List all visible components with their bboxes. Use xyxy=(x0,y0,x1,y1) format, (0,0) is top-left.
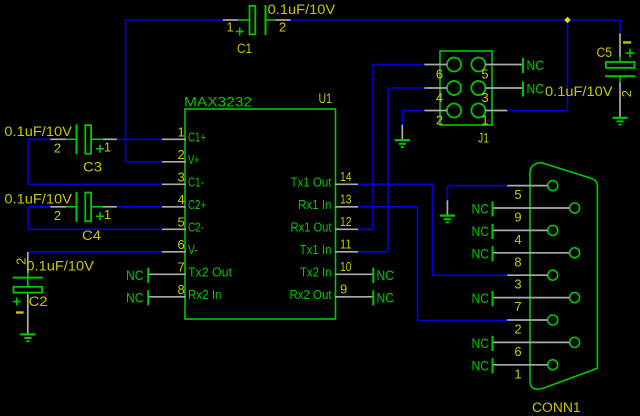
capacitor C4 (0.1uF/10V) between C2+ and C2- xyxy=(0,0,1,1)
svg-text:3: 3 xyxy=(514,277,521,292)
wire C4 pin2 stub left xyxy=(28,206,50,208)
wire C3 pin2 stub left xyxy=(28,138,50,140)
svg-text:CONN1: CONN1 xyxy=(532,400,581,415)
wire Tx1 Out into CONN1 pin 3 xyxy=(433,274,508,276)
wire VCC vertical to J1 pin 1 xyxy=(567,20,569,111)
C3 plus sign xyxy=(96,148,104,150)
capacitor C2 center lead xyxy=(27,278,29,286)
U1 pin 12 stub xyxy=(335,228,358,230)
CONN1 pin 6 NC tick xyxy=(492,336,494,351)
svg-text:8: 8 xyxy=(178,282,185,297)
wire net V+ horizontal into pin 2 xyxy=(126,161,163,163)
capacitor C3 pin 2 stub xyxy=(50,138,66,140)
capacitor C2 pin 1 stub to ground xyxy=(27,295,29,334)
wire net V+ top horizontal left of C1 xyxy=(126,19,223,21)
svg-text:5: 5 xyxy=(514,187,521,202)
C5 pin 1 number rotated xyxy=(623,41,631,43)
capacitor C3 positive plate box xyxy=(85,125,91,154)
wire J1 pin 2 ground drop xyxy=(401,111,403,125)
svg-text:Rx2 Out: Rx2 Out xyxy=(290,287,332,302)
svg-text:C1+: C1+ xyxy=(188,129,206,144)
svg-text:2: 2 xyxy=(436,113,443,128)
capacitor C1 positive plate box xyxy=(250,6,256,35)
svg-text:1: 1 xyxy=(481,113,488,128)
wire into U1 pin 3 xyxy=(28,183,162,185)
svg-text:13: 13 xyxy=(340,191,352,206)
U1 pin 7 stub (NC) xyxy=(149,273,186,275)
svg-text:4: 4 xyxy=(436,90,443,105)
wire net V+ vertical drop to pin 2 xyxy=(125,20,127,162)
CONN1 pin 9 stub (NC) xyxy=(493,207,570,209)
ground symbol below J1 pin 2 xyxy=(401,125,403,140)
CONN1 pin 7 circle xyxy=(570,293,580,303)
capacitor C1 pin 1 stub xyxy=(223,19,238,21)
CONN1 pin 7 stub (NC) xyxy=(493,297,570,299)
svg-text:11: 11 xyxy=(340,236,352,251)
ground symbol below C2 xyxy=(20,333,35,335)
svg-text:Tx1 In: Tx1 In xyxy=(300,242,332,257)
wire U1 pin 13 Rx1 In horizontal xyxy=(358,206,418,208)
svg-text:6: 6 xyxy=(436,67,443,82)
svg-text:Rx1 Out: Rx1 Out xyxy=(291,219,332,234)
J1 pin 6 circle xyxy=(447,58,461,72)
svg-text:Tx1 Out: Tx1 Out xyxy=(291,174,332,189)
svg-text:7: 7 xyxy=(178,259,185,274)
capacitor C4 pin 1 stub xyxy=(103,206,117,208)
op-amp U1 MAX3232 IC body xyxy=(185,109,336,319)
svg-text:8: 8 xyxy=(514,254,521,269)
capacitor C5 pin 1 stub xyxy=(619,33,621,56)
svg-text:NC: NC xyxy=(126,267,144,283)
capacitor C2 pin 2 stub xyxy=(27,252,29,273)
svg-text:C5: C5 xyxy=(597,45,613,60)
svg-text:10: 10 xyxy=(340,259,352,274)
svg-text:1: 1 xyxy=(178,124,185,139)
U1 pin 8 stub (NC) xyxy=(149,296,186,298)
U1 pin 14 stub xyxy=(335,183,358,185)
CONN1 pin 8 circle xyxy=(570,248,580,258)
svg-text:U1: U1 xyxy=(319,91,333,106)
svg-text:2: 2 xyxy=(279,20,286,35)
svg-text:Rx2 In: Rx2 In xyxy=(188,287,222,302)
svg-text:NC: NC xyxy=(377,267,395,283)
J1 pin 5 NC tick xyxy=(522,58,524,73)
svg-text:1: 1 xyxy=(514,366,521,381)
svg-text:1: 1 xyxy=(104,207,111,222)
CONN1 pin 1 stub (NC) xyxy=(493,364,548,366)
wire U1 pin 12 Rx1 Out horizontal xyxy=(358,228,374,230)
capacitor C1 negative plate xyxy=(265,5,267,35)
capacitor C2 positive plate box xyxy=(14,287,43,293)
CONN1 pin 2 stub xyxy=(507,319,548,321)
svg-text:2: 2 xyxy=(178,147,185,162)
U1 pin 10 stub (NC) xyxy=(335,273,373,275)
wire Rx1 Out vertical up to J1 pin 6 xyxy=(372,65,374,230)
svg-text:NC: NC xyxy=(377,289,395,305)
C2 plus sign xyxy=(13,301,21,303)
svg-text:Tx2 In: Tx2 In xyxy=(300,264,332,279)
wire into J1 pin 1 xyxy=(507,110,567,112)
wire into J1 pin 6 xyxy=(373,64,424,66)
capacitor C3 negative plate xyxy=(76,124,78,154)
capacitor C2 top lead xyxy=(27,273,29,278)
svg-text:1: 1 xyxy=(226,20,233,35)
capacitor C5 negative plate xyxy=(605,75,635,77)
CONN1 pin 1 NC tick xyxy=(492,358,494,373)
svg-text:4: 4 xyxy=(178,192,185,207)
CONN1 pin 4 NC tick xyxy=(492,224,494,239)
U1 pin 6 stub xyxy=(162,251,186,253)
CONN1 pin 3 stub xyxy=(507,274,548,276)
J1 pin 6 stub xyxy=(424,64,447,66)
wire J1 pin 2 to ground xyxy=(402,110,424,112)
CONN1 pin 6 stub (NC) xyxy=(493,341,570,343)
J1 pin 2 circle xyxy=(447,104,461,118)
wire net VCC top horizontal right of C1 xyxy=(291,19,620,21)
J1 pin 5 stub (NC) xyxy=(485,64,522,66)
capacitor C3 (0.1uF/10V) between C1+ and C1- xyxy=(0,0,1,1)
U1 pin 2 stub xyxy=(162,161,186,163)
J1 pin 3 circle xyxy=(471,81,485,95)
CONN1 pin 7 NC tick xyxy=(492,291,494,306)
U1 pin 9 NC tick xyxy=(372,290,374,305)
U1 pin 4 stub xyxy=(162,206,186,208)
svg-text:12: 12 xyxy=(340,214,352,229)
capacitor C2 negative plate xyxy=(13,277,43,279)
svg-text:0.1uF/10V: 0.1uF/10V xyxy=(4,123,72,139)
svg-text:0.1uF/10V: 0.1uF/10V xyxy=(268,1,336,17)
wire C4 pin2 vertical down xyxy=(27,207,29,230)
C4 plus sign xyxy=(96,215,104,217)
svg-text:NC: NC xyxy=(472,335,490,351)
svg-text:J1: J1 xyxy=(478,131,489,146)
svg-text:NC: NC xyxy=(527,81,545,97)
U1 pin 5 stub xyxy=(162,228,186,230)
capacitor C1 pin 2 stub xyxy=(275,19,290,21)
svg-text:NC: NC xyxy=(472,201,490,217)
capacitor C1 right lead xyxy=(266,19,276,21)
svg-text:V-: V- xyxy=(188,242,198,257)
svg-text:V+: V+ xyxy=(188,152,200,167)
svg-text:0.1uF/10V: 0.1uF/10V xyxy=(545,83,613,99)
svg-text:3: 3 xyxy=(481,90,488,105)
U1 pin 10 NC tick xyxy=(372,268,374,283)
svg-text:NC: NC xyxy=(472,245,490,261)
wire into U1 pin 5 xyxy=(28,228,162,230)
CONN1 pin 8 stub (NC) xyxy=(493,252,570,254)
svg-text:NC: NC xyxy=(472,290,490,306)
wire Tx1 Out vertical down xyxy=(432,184,434,275)
C2 pin 1 number rotated xyxy=(16,311,24,313)
svg-text:6: 6 xyxy=(514,344,521,359)
wire C3 pin1 to U1 pin 1 xyxy=(117,138,162,140)
svg-text:5: 5 xyxy=(481,67,488,82)
svg-text:0.1uF/10V: 0.1uF/10V xyxy=(26,258,94,274)
svg-text:C2: C2 xyxy=(29,294,48,309)
ground symbol below C5 xyxy=(612,117,627,119)
svg-text:C3: C3 xyxy=(83,160,102,175)
U1 pin 7 NC tick xyxy=(147,268,149,283)
capacitor C4 right lead xyxy=(92,206,103,208)
CONN1 pin 4 circle xyxy=(548,225,558,235)
J1 pin 5 circle xyxy=(471,58,485,72)
wire Rx1 In vertical down xyxy=(417,207,419,321)
capacitor C5 bottom lead xyxy=(619,76,621,82)
svg-text:0.1uF/10V: 0.1uF/10V xyxy=(4,191,72,207)
U1 pin 11 stub xyxy=(335,251,358,253)
svg-text:6: 6 xyxy=(178,237,185,252)
J1 pin 4 stub xyxy=(424,87,447,89)
wire Tx1 In vertical up to J1 pin 4 xyxy=(387,88,389,252)
svg-text:7: 7 xyxy=(514,299,521,314)
wire Rx1 In into CONN1 pin 2 xyxy=(418,319,508,321)
svg-text:Tx2 Out: Tx2 Out xyxy=(188,264,232,279)
U1 pin 8 NC tick xyxy=(147,290,149,305)
wire VCC vertical to C5 xyxy=(619,20,621,33)
J1 pin 4 circle xyxy=(447,81,461,95)
CONN1 pin 5 stub xyxy=(507,185,548,187)
capacitor C4 left lead xyxy=(66,206,75,208)
svg-text:2: 2 xyxy=(514,322,521,337)
capacitor C1 left lead xyxy=(238,19,248,21)
svg-text:9: 9 xyxy=(340,281,347,296)
capacitor C3 pin 1 stub xyxy=(103,138,117,140)
CONN1 pin 5 circle xyxy=(548,181,558,191)
capacitor C4 negative plate xyxy=(76,192,78,222)
U1 pin 13 stub xyxy=(335,206,358,208)
J1 pin 1 circle xyxy=(471,104,485,118)
capacitor C3 left lead xyxy=(66,138,75,140)
J1 pin 3 NC tick xyxy=(522,81,524,96)
svg-text:C2+: C2+ xyxy=(188,197,206,212)
svg-text:NC: NC xyxy=(527,57,545,73)
svg-text:4: 4 xyxy=(514,232,521,247)
svg-text:2: 2 xyxy=(619,90,634,97)
svg-text:C1-: C1- xyxy=(188,174,204,189)
svg-text:14: 14 xyxy=(340,169,352,184)
capacitor C3 right lead xyxy=(92,138,103,140)
svg-text:9: 9 xyxy=(514,210,521,225)
svg-text:C4: C4 xyxy=(82,228,102,243)
svg-text:1: 1 xyxy=(104,139,111,154)
svg-text:C1: C1 xyxy=(237,41,252,56)
C5 plus sign xyxy=(626,52,635,54)
capacitor C5 pin 2 stub to ground xyxy=(619,82,621,117)
J1 pin 3 stub (NC) xyxy=(485,87,522,89)
connector J1 body xyxy=(440,51,492,125)
svg-text:Rx1 In: Rx1 In xyxy=(298,197,332,212)
wire U1 pin 14 Tx1 Out horizontal xyxy=(358,183,433,185)
ground symbol below CONN1 pin 5 wire xyxy=(446,200,448,215)
capacitor C4 pin 2 stub xyxy=(50,206,66,208)
CONN1 pin 2 circle xyxy=(548,315,558,325)
svg-text:2: 2 xyxy=(54,208,61,223)
U1 pin 3 stub xyxy=(162,183,186,185)
CONN1 pin 3 circle xyxy=(548,270,558,280)
svg-text:C2-: C2- xyxy=(188,219,204,234)
capacitor C2 bottom lead xyxy=(27,293,29,295)
CONN1 pin 8 NC tick xyxy=(492,246,494,261)
J1 pin 2 stub xyxy=(424,110,447,112)
wire U1 pin 11 Tx1 In horizontal xyxy=(358,251,389,253)
svg-text:MAX3232: MAX3232 xyxy=(184,94,252,110)
wire into J1 pin 4 xyxy=(388,87,424,89)
capacitor C5 positive plate box xyxy=(606,62,635,68)
svg-text:3: 3 xyxy=(178,169,185,184)
wire CONN1 pin 5 ground drop xyxy=(446,186,448,201)
CONN1 pin 9 NC tick xyxy=(492,201,494,216)
CONN1 pin 1 circle xyxy=(548,360,558,370)
U1 pin 9 stub (NC) xyxy=(335,296,373,298)
wire CONN1 pin 5 to ground xyxy=(447,185,507,187)
CONN1 pin 4 stub (NC) xyxy=(493,229,548,231)
svg-text:NC: NC xyxy=(472,357,490,373)
svg-text:5: 5 xyxy=(178,214,185,229)
svg-text:NC: NC xyxy=(472,223,490,239)
wire C3 pin2 vertical down xyxy=(27,139,29,184)
wire V- net U1 pin 6 to C2 xyxy=(28,251,162,253)
CONN1 pin 6 circle xyxy=(570,337,580,347)
junction VCC net at J1 branch xyxy=(564,17,571,24)
CONN1 pin 9 circle xyxy=(570,203,580,213)
svg-text:2: 2 xyxy=(54,140,61,155)
capacitor C5 top lead xyxy=(619,57,621,62)
J1 pin 1 stub xyxy=(485,110,507,112)
C1 plus sign xyxy=(236,31,244,33)
wire C4 pin1 to U1 pin 4 xyxy=(117,206,162,208)
capacitor C4 positive plate box xyxy=(85,193,91,222)
U1 pin 1 stub xyxy=(162,138,186,140)
connector CONN1 DB9 outline xyxy=(530,163,597,389)
svg-text:NC: NC xyxy=(126,289,144,305)
